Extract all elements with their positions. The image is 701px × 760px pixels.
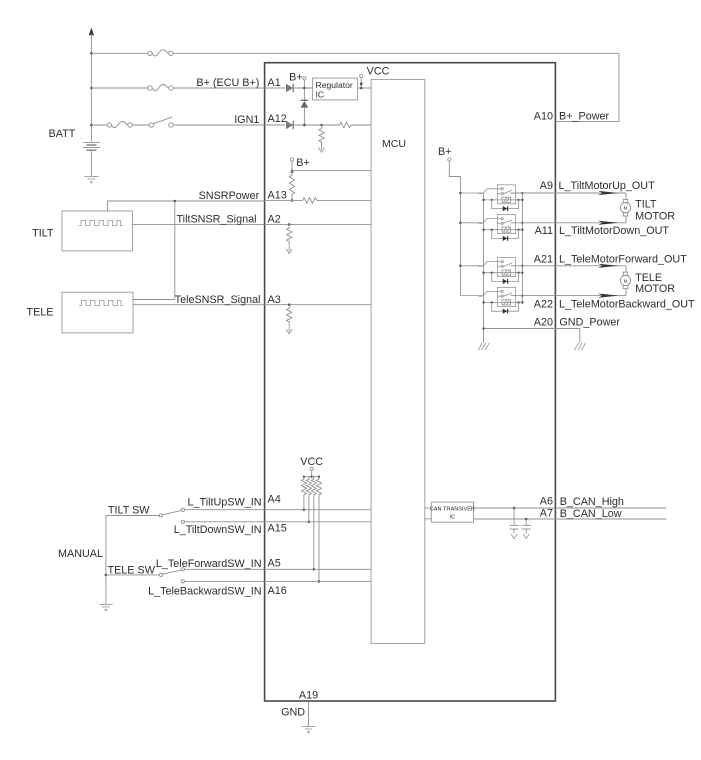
- resistor R-A13 pullup: [289, 171, 294, 201]
- wire TELE power stub to box: [133, 299, 175, 301]
- svg-text:MOTOR: MOTOR: [635, 210, 675, 222]
- wire regulator output to MCU: [358, 87, 372, 89]
- wire top rail to B+_Power: [91, 52, 147, 54]
- wire B_CAN_High line: [474, 507, 667, 509]
- svg-text:B+: B+: [289, 71, 303, 83]
- svg-text:TELE: TELE: [26, 306, 53, 318]
- TELE sensor box: [62, 292, 133, 333]
- wire right corner down to A10: [555, 53, 619, 121]
- svg-text:A15: A15: [268, 522, 287, 534]
- wire A12 line into ECU: [265, 124, 286, 126]
- wire A2 line to MCU: [265, 223, 372, 225]
- wire A16 row: [184, 580, 371, 582]
- node IGN pulldown junction: [320, 124, 323, 127]
- diode D2 on A12 line: [286, 121, 293, 129]
- motor M2 TELE MOTOR: [620, 272, 630, 289]
- svg-text:A6: A6: [540, 496, 553, 508]
- node A16 pullup junction: [318, 580, 321, 583]
- node zener bottom on A12 line: [303, 124, 306, 127]
- B+ terminal circle (A13 pullup): [290, 158, 293, 161]
- svg-text:L_TiltDownSW_IN: L_TiltDownSW_IN: [174, 524, 262, 536]
- wire A19 ground stub: [308, 701, 310, 726]
- svg-text:L_TeleMotorBackward_OUT: L_TeleMotorBackward_OUT: [559, 299, 695, 311]
- flow arrow at B+ corner: [290, 168, 293, 172]
- wire tilt motor top drop: [625, 193, 627, 199]
- motor M1 TILT MOTOR: [620, 199, 630, 216]
- svg-text:A2: A2: [268, 214, 281, 226]
- svg-text:A10: A10: [534, 111, 553, 123]
- relay K2 TiltDown: [460, 215, 523, 241]
- ground arrow under A2 pulldown: [286, 245, 292, 254]
- VCC terminal circle: [360, 74, 363, 77]
- svg-text:MCU: MCU: [382, 138, 406, 150]
- diode D1 on A1 line: [286, 84, 293, 92]
- wire A22 motor backward line: [511, 295, 627, 297]
- wire battery to ground: [90, 151, 92, 177]
- wire R-A16 tail: [318, 497, 320, 582]
- node TELE power branch junction: [174, 200, 177, 203]
- svg-text:M: M: [624, 278, 628, 283]
- wire manual common vertical: [105, 516, 107, 605]
- node B+ bus feed1: [459, 192, 462, 195]
- node CAN high cap junction: [513, 507, 516, 510]
- regulator IC U1: [313, 78, 358, 100]
- svg-text:TiltSNSR_Signal: TiltSNSR_Signal: [176, 214, 256, 226]
- resistor R-A16 pullup: [317, 477, 322, 497]
- ignition switch SW-IGN: [149, 117, 173, 127]
- svg-text:L_TeleMotorForward_OUT: L_TeleMotorForward_OUT: [559, 254, 687, 266]
- flow arrow on A11 line: [598, 221, 619, 225]
- wire SNSRPower line to ECU: [107, 200, 264, 202]
- wire B_CAN_Low line: [474, 518, 667, 520]
- svg-text:A11: A11: [535, 225, 553, 237]
- wire relay ground bus vertical: [483, 193, 485, 343]
- fuse F2 on B+ ECU rail: [148, 84, 173, 90]
- svg-text:A4: A4: [268, 493, 281, 505]
- node A3 pulldown junction: [288, 303, 291, 306]
- wire A5 row: [184, 568, 371, 570]
- wire B+ stub down: [291, 161, 293, 171]
- node A4 pullup junction: [303, 508, 306, 511]
- wire tele motor bottom drop: [625, 289, 627, 296]
- wire A4 row: [184, 509, 371, 511]
- VCC terminal circle (pullups): [310, 467, 313, 470]
- wire A21 motor forward line: [511, 265, 627, 267]
- wire pullup bus: [304, 476, 319, 478]
- node VCC junction: [360, 87, 363, 90]
- flow arrow on A22 line: [598, 294, 619, 298]
- arrow up at battery feed top: [89, 28, 94, 36]
- wire A11 motor down line: [511, 222, 627, 224]
- wire B+ feed stub: [449, 161, 460, 176]
- resistor R-A13 series: [300, 198, 319, 204]
- resistor R-A5 pullup: [311, 477, 316, 497]
- svg-text:CAN TRANSIVER: CAN TRANSIVER: [430, 507, 475, 513]
- svg-text:A19: A19: [299, 690, 318, 702]
- capacitor C1 on CAN high: [510, 508, 519, 532]
- wire A9 motor up line: [511, 192, 627, 194]
- wire R-A5 tail: [313, 497, 315, 570]
- node CAN low cap junction: [525, 518, 528, 521]
- node rail1 junction: [90, 52, 93, 55]
- node pullup bus left: [303, 476, 305, 478]
- wire VCC stub to pullup bus: [311, 471, 313, 477]
- svg-text:A5: A5: [268, 558, 281, 570]
- wire TeleSNSR signal to ECU: [133, 304, 265, 306]
- node GND bus corner: [482, 327, 484, 329]
- resistor R-A3 pulldown: [287, 305, 292, 326]
- wire IGN1 between fuse and switch: [132, 124, 149, 126]
- flow arrow on A21 line: [598, 264, 619, 268]
- ground under battery: [84, 177, 98, 184]
- wire IGN1 rail left part: [91, 124, 107, 126]
- CAN transceiver IC U2: [430, 502, 475, 522]
- ECU box: [265, 63, 556, 701]
- svg-text:B+: B+: [438, 146, 452, 158]
- ground under manual switches: [99, 604, 113, 611]
- chassis ground external (GND_Power): [575, 343, 586, 350]
- wire A15 row: [184, 521, 371, 523]
- svg-text:A22: A22: [534, 299, 553, 311]
- node TELE SW common junction: [105, 574, 108, 577]
- wire tele motor top drop: [625, 266, 627, 272]
- node rail3 junction: [90, 124, 93, 127]
- node A2 pulldown junction: [288, 223, 291, 226]
- node pullup bus mid: [311, 476, 313, 478]
- flow arrow into VCC node: [360, 83, 363, 87]
- svg-text:B+: B+: [296, 157, 310, 169]
- relay K4 TeleBackward: [460, 287, 523, 313]
- TILT sensor waveform: [79, 220, 123, 225]
- wire B+ ECU rail left part: [91, 87, 147, 89]
- switch SW-TILT: [159, 508, 184, 523]
- wire A1 line into ECU: [265, 87, 286, 89]
- resistor R-A2 pulldown: [287, 224, 292, 245]
- B+ terminal circle (relay feed): [448, 158, 451, 161]
- svg-text:L_TiltMotorUp_OUT: L_TiltMotorUp_OUT: [559, 180, 656, 192]
- chassis ground internal (relays): [478, 343, 489, 350]
- wire B+ line to MCU: [292, 170, 371, 172]
- zener diode D3 between A1 and A12 lines: [301, 89, 309, 125]
- svg-text:BATT: BATT: [49, 128, 76, 140]
- ground arrow under C2: [523, 532, 529, 538]
- wire TELE power branch down: [174, 201, 176, 300]
- wire GND_Power line: [484, 329, 580, 343]
- wire A1 diode to regulator: [294, 87, 313, 89]
- svg-text:TILT SW: TILT SW: [108, 505, 150, 517]
- wire B+ ECU rail to ECU: [173, 87, 265, 89]
- TILT sensor box: [62, 211, 132, 251]
- svg-text:TILT: TILT: [635, 199, 657, 211]
- battery BATT symbol: [83, 142, 100, 150]
- svg-text:B_CAN_High: B_CAN_High: [560, 496, 624, 508]
- resistor R-IGN series: [337, 122, 353, 128]
- wire tilt motor bottom drop: [625, 216, 627, 223]
- ground arrow under IGN pulldown: [319, 146, 325, 153]
- resistor R-A15 pullup: [306, 477, 311, 497]
- wire TELE SW common: [106, 574, 159, 576]
- wire battery vertical feed: [90, 34, 92, 142]
- svg-text:B+_Power: B+_Power: [559, 111, 610, 123]
- svg-text:A12: A12: [268, 113, 287, 125]
- svg-text:L_TeleForwardSW_IN: L_TeleForwardSW_IN: [156, 558, 262, 570]
- wire A3 line to MCU: [265, 304, 372, 306]
- fuse F1 on top rail: [148, 50, 173, 56]
- wire A13 line left part: [265, 199, 300, 201]
- wire A12 diode to resistor: [294, 124, 337, 126]
- node A13 pullup junction: [291, 199, 294, 202]
- node rail2 junction: [90, 87, 93, 90]
- svg-text:A7: A7: [540, 508, 553, 520]
- wire B+ relay bus vertical: [459, 177, 461, 296]
- svg-text:L_TiltMotorDown_OUT: L_TiltMotorDown_OUT: [559, 225, 669, 237]
- wire A12 resistor to MCU: [353, 124, 371, 126]
- wire B+ stub down to A1 line: [303, 80, 305, 87]
- wire MCU to CAN high: [425, 507, 432, 509]
- svg-text:IGN1: IGN1: [234, 114, 259, 126]
- svg-text:M: M: [624, 206, 628, 211]
- svg-text:TILT: TILT: [32, 227, 54, 239]
- svg-text:GND_Power: GND_Power: [559, 317, 620, 329]
- svg-text:GND: GND: [281, 706, 305, 718]
- wire TILT SW common: [106, 515, 159, 517]
- node B+ pullup junction on A1: [303, 87, 306, 90]
- svg-text:A20: A20: [534, 317, 553, 329]
- svg-text:A3: A3: [268, 294, 281, 306]
- flow arrow on A9 line: [598, 191, 619, 195]
- relay K3 TeleForward: [460, 258, 523, 284]
- svg-text:L_TiltUpSW_IN: L_TiltUpSW_IN: [188, 497, 262, 509]
- wire TiltSNSR signal to ECU: [132, 223, 264, 225]
- relay K1 TiltUp: [460, 185, 523, 211]
- wire R-A4 tail: [303, 497, 305, 510]
- svg-text:A1: A1: [268, 77, 281, 89]
- wire top rail continues to right corner: [173, 52, 619, 54]
- svg-text:B+ (ECU B+): B+ (ECU B+): [196, 77, 259, 89]
- TELE sensor waveform: [79, 300, 123, 305]
- svg-text:MANUAL: MANUAL: [58, 548, 103, 560]
- wire IGN1 to ECU: [173, 124, 265, 126]
- wire R-A15 tail: [308, 497, 310, 522]
- switch SW-TELE: [159, 568, 184, 583]
- svg-text:Regulator: Regulator: [316, 80, 353, 90]
- node A5 pullup junction: [313, 568, 316, 571]
- capacitor C2 on CAN low: [522, 519, 531, 532]
- ground under A19: [302, 727, 316, 734]
- svg-text:VCC: VCC: [367, 66, 390, 78]
- wire relay drive bus vertical: [521, 193, 523, 303]
- resistor R-IGN pulldown: [319, 125, 324, 146]
- svg-text:IC: IC: [450, 515, 456, 521]
- B+ terminal circle (A1): [303, 77, 306, 80]
- wire A13 line to MCU: [319, 199, 371, 201]
- node pullup bus right: [318, 476, 320, 478]
- MCU U-MCU: [371, 79, 425, 643]
- ground arrow under C1: [511, 532, 517, 538]
- resistor R-A4 pullup: [301, 477, 306, 497]
- svg-text:MOTOR: MOTOR: [635, 283, 675, 295]
- svg-text:A9: A9: [540, 180, 553, 192]
- svg-text:L_TeleBackwardSW_IN: L_TeleBackwardSW_IN: [148, 586, 261, 598]
- node B+ bus feed2: [459, 222, 462, 225]
- svg-text:A21: A21: [534, 254, 553, 266]
- wire MCU to CAN low: [425, 518, 432, 520]
- svg-text:A13: A13: [268, 189, 287, 201]
- svg-text:B_CAN_Low: B_CAN_Low: [560, 508, 622, 520]
- fuse F3 on IGN1 rail: [107, 121, 132, 127]
- node A15 pullup junction: [308, 521, 311, 524]
- wire TILT power up to SNSRPower: [106, 201, 108, 211]
- wire VCC stub: [360, 78, 362, 85]
- svg-text:TeleSNSR_Signal: TeleSNSR_Signal: [175, 294, 261, 306]
- ground arrow under A3 pulldown: [286, 325, 292, 334]
- svg-text:VCC: VCC: [300, 456, 323, 468]
- svg-text:IC: IC: [316, 90, 325, 100]
- node B+ bus feed3: [459, 265, 462, 268]
- svg-text:SNSRPower: SNSRPower: [199, 190, 260, 202]
- svg-text:A16: A16: [268, 585, 287, 597]
